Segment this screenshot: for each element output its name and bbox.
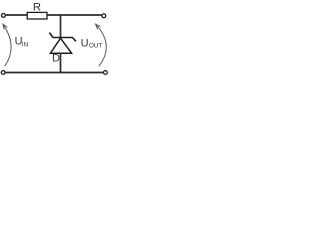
terminal top-left — [2, 14, 6, 18]
voltage arrow U_OUT arc — [96, 24, 107, 66]
svg-text:R: R — [33, 1, 41, 13]
terminal bottom-left — [1, 71, 5, 75]
svg-text:IN: IN — [22, 42, 29, 49]
zener diode D triangle — [50, 38, 71, 53]
wire zener upper lead — [60, 15, 62, 38]
svg-text:OUT: OUT — [89, 43, 103, 50]
wire zener lower lead — [60, 53, 62, 73]
resistor R — [27, 12, 47, 19]
voltage arrow U_IN head — [3, 24, 7, 29]
svg-text:D: D — [52, 53, 60, 65]
terminal bottom-right — [104, 71, 108, 75]
voltage arrow U_IN arc — [3, 24, 11, 66]
voltage arrow U_OUT head — [96, 24, 101, 29]
terminal top-right — [102, 14, 106, 18]
zener diode D cathode bar — [49, 33, 76, 42]
svg-text:U: U — [81, 37, 89, 49]
wire top rail — [6, 14, 102, 16]
wire bottom rail — [6, 72, 104, 74]
